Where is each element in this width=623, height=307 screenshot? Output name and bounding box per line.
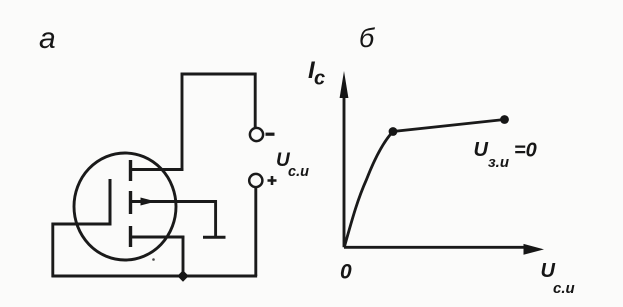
wire from plus terminal down (254, 188, 257, 277)
svg-text:U: U (541, 260, 556, 282)
y axis arrowhead (340, 71, 349, 98)
wire left feedback vertical (51, 223, 54, 278)
terminal minus (250, 128, 263, 141)
terminal plus (249, 174, 262, 187)
y axis (343, 94, 346, 247)
wire drain vertical (181, 73, 184, 171)
svg-text:б: б (359, 23, 375, 53)
output characteristic curve (345, 120, 505, 247)
label U_с.и (x axis) (541, 260, 575, 297)
wire source vertical to rail (182, 236, 185, 276)
transistor VT1 body circle (74, 153, 176, 260)
transistor VT1 channel bottom dash (source) (129, 226, 132, 247)
wire drain lead (131, 168, 183, 171)
label U_з.и = 0 (gate voltage) (474, 139, 537, 171)
wire source lead (131, 236, 184, 239)
label I_c (drain current axis) (308, 57, 325, 90)
label U_c.и (drain-source voltage) (276, 150, 309, 180)
svg-text:U: U (474, 139, 489, 161)
substrate terminal bar (203, 236, 226, 239)
svg-text:с.и: с.и (288, 164, 309, 180)
transistor VT1 channel top dash (drain) (129, 160, 132, 181)
label minus (266, 133, 275, 136)
wire to minus terminal (254, 73, 257, 129)
junction dot (177, 270, 188, 281)
wire bottom rail (52, 275, 258, 278)
x axis (344, 246, 526, 249)
transistor VT1 channel middle dash (substrate) (129, 191, 132, 214)
transistor VT1 gate electrode bar (109, 179, 112, 224)
svg-text:з.и: з.и (488, 154, 509, 171)
wire top rail (181, 73, 257, 76)
x axis arrowhead (524, 244, 545, 255)
svg-text:=0: =0 (514, 140, 537, 162)
svg-text:c: c (314, 68, 325, 90)
svg-text:0: 0 (340, 261, 352, 284)
curve point 2 (500, 115, 509, 124)
svg-text:с.и: с.и (553, 280, 575, 297)
curve point 1 (389, 127, 398, 136)
label plus (268, 176, 277, 185)
svg-text:а: а (39, 22, 56, 55)
wire substrate vertical (214, 200, 217, 236)
wire substrate lead (132, 200, 217, 203)
transistor VT1 substrate arrow (141, 198, 156, 206)
wire gate lead (52, 223, 112, 226)
